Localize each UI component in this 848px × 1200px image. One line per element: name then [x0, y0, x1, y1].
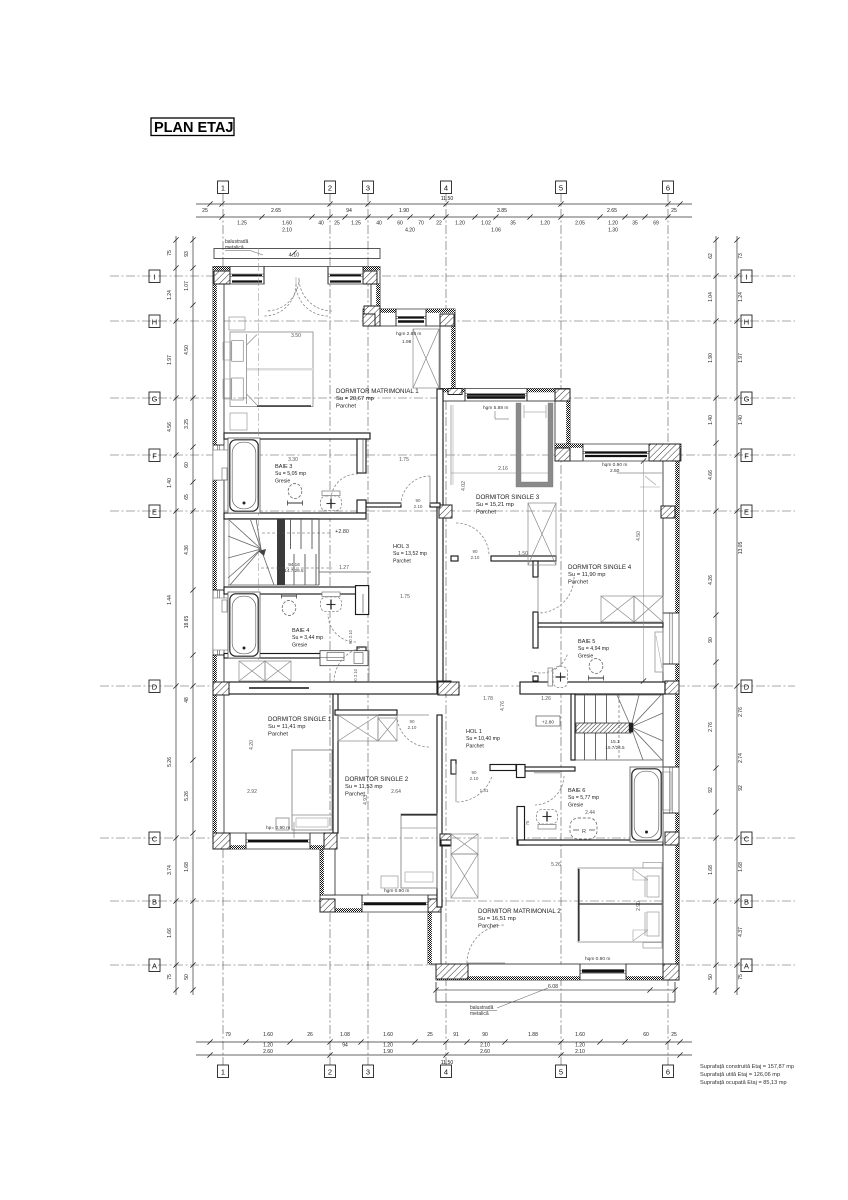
svg-text:R: R	[582, 829, 586, 835]
svg-text:Gresie: Gresie	[568, 802, 583, 808]
grid marker 2 bottom	[325, 1065, 336, 1078]
svg-text:5.26: 5.26	[184, 791, 190, 801]
svg-text:4: 4	[444, 1068, 448, 1077]
wall BAIE6 south	[518, 840, 663, 845]
svg-text:75: 75	[167, 974, 173, 980]
svg-text:2.60: 2.60	[480, 1049, 490, 1055]
dimension chain bottom inner	[196, 1041, 692, 1043]
door arc DM2 corridor	[456, 777, 492, 802]
window step2 DS3	[465, 388, 527, 402]
svg-text:14.7/26.5: 14.7/26.5	[284, 568, 304, 573]
svg-text:79: 79	[225, 1032, 231, 1038]
grid marker H left	[149, 315, 160, 328]
svg-text:93: 93	[184, 251, 190, 257]
svg-text:90: 90	[708, 637, 714, 643]
svg-text:Parchet: Parchet	[478, 923, 498, 929]
grid line row E	[110, 510, 795, 512]
svg-text:1.27: 1.27	[339, 565, 349, 571]
svg-text:11.50: 11.50	[441, 1060, 454, 1066]
svg-text:G: G	[744, 395, 750, 404]
pier step1 left	[363, 314, 375, 326]
pier step1 right / central top	[440, 314, 454, 326]
svg-text:50: 50	[184, 974, 190, 980]
svg-text:BAIE 5: BAIE 5	[578, 639, 595, 645]
grid line row B	[110, 900, 795, 902]
grid marker C right	[741, 832, 752, 845]
svg-text:1.40: 1.40	[167, 478, 173, 488]
svg-text:hqm 0.90 m: hqm 0.90 m	[602, 462, 627, 468]
svg-text:Gresie: Gresie	[275, 478, 290, 484]
svg-text:90: 90	[409, 719, 415, 724]
pier bottom-left wall right	[324, 833, 337, 849]
door arc DM2	[467, 925, 505, 963]
svg-text:G: G	[152, 395, 158, 404]
svg-text:75: 75	[167, 250, 173, 256]
svg-text:DORMITOR SINGLE 1: DORMITOR SINGLE 1	[268, 716, 332, 723]
stairs 2 cut band	[576, 723, 631, 733]
svg-text:BAIE 6: BAIE 6	[568, 788, 585, 794]
stairs 1 treads lower	[283, 554, 285, 585]
nightstand DM2 bottom	[643, 943, 662, 949]
svg-text:26: 26	[307, 1032, 313, 1038]
svg-text:Suprafață ocupată Etaj = 85,13: Suprafață ocupată Etaj = 85,13 mp	[700, 1080, 787, 1086]
svg-text:3.30: 3.30	[288, 457, 298, 463]
grid marker F right	[741, 449, 752, 462]
svg-text:60: 60	[397, 221, 403, 227]
wardrobe hall strip	[239, 661, 265, 681]
door arc BAIE 5	[531, 655, 567, 673]
wall DS4 west	[533, 561, 538, 577]
dimension chain left inner	[192, 236, 194, 995]
dimension chain right inner	[715, 236, 717, 995]
grid marker F left	[149, 449, 160, 462]
svg-text:4.36: 4.36	[184, 545, 190, 555]
grid marker G left	[149, 392, 160, 405]
svg-text:DORMITOR SINGLE 2: DORMITOR SINGLE 2	[345, 776, 409, 783]
svg-text:Su = 11,90 mp: Su = 11,90 mp	[568, 572, 605, 578]
svg-text:B: B	[152, 898, 157, 907]
svg-text:73: 73	[738, 253, 744, 259]
grid marker D right	[741, 680, 752, 693]
svg-text:22: 22	[436, 221, 442, 227]
axis line x258	[258, 248, 260, 660]
svg-text:50: 50	[708, 974, 714, 980]
svg-text:Parchet: Parchet	[568, 579, 588, 585]
svg-text:4.93: 4.93	[363, 795, 369, 805]
svg-text:2.44: 2.44	[585, 810, 595, 816]
grid marker E right	[741, 505, 752, 518]
svg-text:A: A	[744, 962, 749, 971]
svg-text:4.76: 4.76	[500, 701, 506, 711]
svg-text:48: 48	[184, 697, 190, 703]
svg-text:1.20: 1.20	[263, 1043, 273, 1049]
pier central F	[439, 505, 452, 518]
door arc DS1 entry	[334, 647, 369, 682]
svg-text:4.50: 4.50	[636, 531, 642, 541]
svg-text:I: I	[745, 273, 747, 282]
svg-text:1.60: 1.60	[282, 221, 292, 227]
grid line row D	[100, 685, 795, 687]
svg-text:1.88: 1.88	[528, 1032, 538, 1038]
pier central D	[438, 681, 451, 694]
wall bedroom1 right upper	[371, 284, 380, 310]
svg-text:Su = 5,05 mp: Su = 5,05 mp	[275, 471, 306, 477]
svg-text:2.10: 2.10	[408, 725, 417, 730]
svg-text:1.97: 1.97	[167, 355, 173, 365]
svg-text:3.85: 3.85	[497, 208, 507, 214]
svg-text:1.68: 1.68	[708, 865, 714, 875]
grid marker B left	[149, 895, 160, 908]
svg-text:90: 90	[482, 1032, 488, 1038]
door arc DS4	[538, 577, 574, 613]
svg-text:BAIE 3: BAIE 3	[275, 464, 292, 470]
svg-text:4.37: 4.37	[738, 927, 744, 937]
svg-text:1.25: 1.25	[237, 221, 247, 227]
niche DS4 top right	[617, 472, 663, 474]
pier left wall D	[213, 682, 229, 695]
svg-text:F: F	[744, 452, 749, 461]
washing machine BAIE 6	[570, 818, 597, 839]
stairs 2 walk line	[618, 695, 620, 760]
svg-text:2.05: 2.05	[575, 221, 585, 227]
grid marker 2 top	[325, 181, 336, 194]
wall BAIE4 south	[224, 654, 366, 659]
wall stairs2 west	[571, 694, 575, 760]
toilet BAIE 4	[321, 592, 342, 612]
wardrobe DS4	[601, 596, 634, 622]
stairs 1 treads upper	[279, 519, 281, 549]
grid marker E left	[149, 505, 160, 518]
svg-text:DORMITOR SINGLE 4: DORMITOR SINGLE 4	[568, 564, 632, 571]
svg-text:6: 6	[666, 1068, 670, 1077]
svg-text:1.20: 1.20	[608, 221, 618, 227]
pier step bottom h right	[428, 899, 441, 912]
radiator BAIE5	[655, 632, 663, 672]
svg-text:2.64: 2.64	[391, 789, 401, 795]
svg-text:1.25: 1.25	[351, 221, 361, 227]
nightstand bed1 bottom	[230, 413, 247, 430]
svg-text:3.25: 3.25	[184, 419, 190, 429]
svg-text:75: 75	[525, 820, 530, 825]
stairs 1 cut band	[277, 519, 285, 585]
svg-text:DORMITOR MATRIMONIAL 1: DORMITOR MATRIMONIAL 1	[336, 388, 419, 395]
svg-text:hgm 5.88 m: hgm 5.88 m	[483, 405, 508, 411]
wall D row left	[224, 682, 437, 694]
svg-text:2.10: 2.10	[470, 776, 479, 781]
bed DS1	[292, 750, 332, 830]
svg-text:1.90: 1.90	[383, 1049, 393, 1055]
svg-text:4.56: 4.56	[167, 422, 173, 432]
stairs 2 treads	[584, 695, 586, 760]
svg-text:Su = 16,51 mp: Su = 16,51 mp	[478, 916, 516, 922]
svg-text:1.20: 1.20	[383, 1043, 393, 1049]
grid marker D left	[149, 680, 160, 693]
svg-text:Su = 3,44 mp: Su = 3,44 mp	[292, 635, 323, 641]
sink BAIE 3	[288, 484, 303, 506]
svg-text:2.10: 2.10	[282, 228, 292, 234]
bed DM2	[578, 868, 662, 942]
pier C at DS2 east	[440, 834, 451, 846]
dimension chain right outer	[736, 236, 738, 995]
grid marker 6 bottom	[663, 1065, 674, 1078]
grid line column 4	[445, 193, 447, 1065]
svg-text:Su = 13,52 mp: Su = 13,52 mp	[393, 551, 427, 557]
wall BAIE3 east	[357, 439, 366, 473]
svg-text:65: 65	[184, 494, 190, 500]
wardrobe DM2	[451, 834, 478, 854]
svg-text:2.90: 2.90	[636, 901, 642, 911]
svg-text:90 2.10: 90 2.10	[353, 668, 358, 683]
svg-text:91: 91	[453, 1032, 459, 1038]
dim line 4.50 DS4	[643, 461, 645, 681]
grid line row C	[100, 837, 795, 839]
svg-text:metalică: metalică	[470, 1011, 489, 1017]
window bottom DM2	[580, 963, 626, 980]
title box PLAN ETAJ	[151, 118, 234, 136]
svg-text:1.90: 1.90	[708, 353, 714, 363]
svg-text:Su = 4,94 mp: Su = 4,94 mp	[578, 646, 609, 652]
dimension chain top inner	[196, 216, 692, 218]
svg-text:2.16: 2.16	[498, 466, 508, 472]
shaft box BAIE4	[320, 651, 368, 666]
svg-text:40: 40	[318, 221, 324, 227]
svg-text:1.40: 1.40	[708, 415, 714, 425]
svg-text:1.44: 1.44	[167, 595, 173, 605]
pier step bottom h left	[320, 899, 335, 912]
window step bottom DS2	[362, 894, 428, 912]
wall DS3 east upper	[555, 401, 570, 448]
svg-text:90: 90	[472, 549, 478, 554]
svg-text:2.65: 2.65	[607, 208, 617, 214]
svg-text:metalică: metalică	[225, 245, 244, 251]
svg-text:70: 70	[418, 221, 424, 227]
svg-text:2.92: 2.92	[247, 789, 257, 795]
svg-text:B: B	[744, 898, 749, 907]
svg-text:2.60: 2.60	[263, 1049, 273, 1055]
svg-text:25: 25	[427, 1032, 433, 1038]
svg-text:F: F	[152, 452, 157, 461]
door arc balcony french	[266, 278, 299, 311]
window right wall BAIE6	[662, 767, 679, 813]
svg-text:D: D	[152, 683, 158, 692]
svg-text:94 16: 94 16	[288, 562, 300, 567]
wall BAIE3 south / stairs north	[224, 513, 366, 519]
grid marker A right	[741, 959, 752, 972]
svg-text:3: 3	[366, 184, 370, 193]
window step1	[396, 308, 426, 326]
svg-text:35: 35	[632, 221, 638, 227]
stairs 2 winders	[617, 695, 631, 727]
bathtub BAIE 6	[630, 767, 663, 842]
svg-text:Parchet: Parchet	[466, 743, 484, 749]
svg-text:1.24: 1.24	[738, 292, 744, 302]
grid line row F	[110, 454, 795, 456]
svg-text:4: 4	[444, 184, 448, 193]
wall step bottom horizontal	[320, 895, 441, 912]
grid marker 3 bottom	[363, 1065, 374, 1078]
svg-text:Su = 11,41 mp: Su = 11,41 mp	[268, 724, 305, 730]
bed DS2	[401, 814, 437, 888]
svg-text:D: D	[744, 683, 750, 692]
svg-text:1.60: 1.60	[383, 1032, 393, 1038]
grid line row H	[110, 320, 795, 322]
svg-text:C: C	[152, 835, 158, 844]
wall BAIE4 east	[356, 586, 369, 615]
wall BAIE4 north	[224, 587, 366, 594]
svg-text:69: 69	[653, 221, 659, 227]
svg-text:25: 25	[671, 1032, 677, 1038]
svg-text:3.50: 3.50	[291, 333, 301, 339]
svg-text:Parchet: Parchet	[393, 558, 411, 564]
svg-text:BAIE 4: BAIE 4	[292, 628, 309, 634]
svg-text:2.10: 2.10	[575, 1049, 585, 1055]
svg-text:1.08: 1.08	[340, 1032, 350, 1038]
svg-text:1.20: 1.20	[540, 221, 550, 227]
french door opening top	[265, 266, 328, 285]
svg-text:1.20: 1.20	[455, 221, 465, 227]
window step3 DS4	[583, 443, 649, 461]
svg-text:3: 3	[366, 1068, 370, 1077]
stairs 1 landing edge	[319, 571, 371, 573]
svg-text:1.68: 1.68	[738, 862, 744, 872]
svg-text:2.10: 2.10	[471, 555, 480, 560]
svg-text:5: 5	[559, 184, 563, 193]
wall corridor DM2 west jamb	[451, 760, 456, 774]
svg-text:25: 25	[334, 221, 340, 227]
svg-text:Su = 5,77 mp: Su = 5,77 mp	[568, 795, 599, 801]
grid marker 6 top	[663, 181, 674, 194]
stairs 1 walk line	[262, 532, 332, 534]
grid marker 3 top	[363, 181, 374, 194]
svg-text:75: 75	[738, 974, 744, 980]
dimension chain left outer	[175, 236, 177, 995]
window right wall BAIE5	[662, 613, 679, 664]
svg-text:25: 25	[202, 208, 208, 214]
grid line column 5	[560, 193, 562, 1065]
svg-text:2.65: 2.65	[271, 208, 281, 214]
svg-text:1.60: 1.60	[575, 1032, 585, 1038]
wall step3 horizontal window wall	[555, 444, 681, 461]
svg-text:5.26: 5.26	[167, 757, 173, 767]
grid marker 4 top	[441, 181, 452, 194]
wardrobe DS3	[528, 503, 556, 565]
svg-text:Su = 20,67 mp: Su = 20,67 mp	[336, 396, 374, 402]
wall exterior bottom DM2	[436, 964, 679, 980]
door arc BAIE 6	[535, 776, 564, 805]
toilet BAIE 6	[537, 810, 558, 830]
svg-text:Suprafață utilă Etaj = 126,06: Suprafață utilă Etaj = 126,06 mp	[700, 1072, 780, 1078]
pier corner step3	[649, 444, 680, 461]
svg-text:Su = 15,21 mp: Su = 15,21 mp	[476, 502, 514, 508]
wall step vertical x320	[320, 849, 335, 895]
wall step2 horizontal	[440, 389, 570, 402]
wall exterior right	[663, 461, 679, 965]
svg-text:2.10: 2.10	[480, 1043, 490, 1049]
svg-text:2.76: 2.76	[708, 722, 714, 732]
nightstand DS2	[381, 876, 398, 888]
door arc DS2 entry	[397, 715, 429, 747]
svg-text:1.06: 1.06	[491, 228, 501, 234]
svg-text:1.02: 1.02	[481, 221, 491, 227]
grid line column 2	[329, 193, 331, 1065]
svg-text:Su = 11,53 mp: Su = 11,53 mp	[345, 784, 382, 790]
nightstand DM2 top	[643, 863, 662, 869]
grid marker I left	[149, 270, 160, 283]
svg-text:4.26: 4.26	[708, 575, 714, 585]
svg-text:Parchet: Parchet	[336, 403, 356, 409]
window left wall BAIE3	[212, 445, 224, 480]
svg-text:1.24: 1.24	[167, 290, 173, 300]
svg-text:15.1: 15.1	[611, 739, 620, 744]
grid marker A left	[149, 959, 160, 972]
svg-text:62: 62	[708, 253, 714, 259]
svg-text:Parchet: Parchet	[268, 731, 288, 737]
pier DS3 east bottom	[555, 448, 570, 461]
wall step bottom-left vertical	[428, 912, 441, 964]
svg-text:3.74: 3.74	[167, 865, 173, 875]
pier bottom right corner	[663, 964, 679, 980]
grid line column 6	[667, 193, 669, 1065]
wall interior central	[437, 389, 443, 688]
svg-text:HOL 3: HOL 3	[393, 544, 409, 550]
svg-text:1.98: 1.98	[402, 339, 412, 345]
svg-text:1.50: 1.50	[518, 551, 528, 557]
grid marker C left	[149, 832, 160, 845]
balcony bottom rail	[436, 1001, 675, 1003]
pier D at DS1 east	[438, 682, 459, 695]
grid line column 3	[367, 193, 369, 1065]
sink BAIE 5	[589, 659, 604, 681]
door arc bedroom 1	[401, 476, 430, 505]
svg-text:1.97: 1.97	[738, 353, 744, 363]
svg-text:4.02: 4.02	[461, 481, 467, 491]
svg-text:90: 90	[415, 498, 421, 503]
grid line row I	[110, 275, 795, 277]
svg-text:1.30: 1.30	[608, 228, 618, 234]
svg-text:94: 94	[342, 1043, 348, 1049]
pier D left end	[213, 682, 229, 695]
svg-text:90 2.10: 90 2.10	[348, 629, 353, 644]
svg-text:Parchet: Parchet	[476, 509, 496, 515]
svg-text:92: 92	[708, 787, 714, 793]
wall exterior bottom-left	[213, 833, 335, 849]
svg-text:1.75: 1.75	[399, 457, 409, 463]
svg-text:PLAN ETAJ: PLAN ETAJ	[154, 120, 234, 136]
svg-text:HOL 1: HOL 1	[466, 729, 482, 735]
grid marker 1 bottom	[218, 1065, 229, 1078]
svg-text:25: 25	[671, 208, 677, 214]
svg-text:92: 92	[738, 785, 744, 791]
svg-text:E: E	[152, 508, 157, 517]
svg-text:H: H	[744, 318, 749, 327]
pier right wall C	[665, 832, 679, 845]
wall exterior left	[213, 267, 224, 850]
svg-text:1: 1	[221, 184, 225, 193]
wall bedroom1 south	[224, 433, 370, 439]
bathtub BAIE 3	[228, 438, 260, 513]
svg-text:4.50: 4.50	[184, 345, 190, 355]
svg-text:15.7/26.5: 15.7/26.5	[605, 745, 625, 750]
closet DS3 gray	[516, 403, 553, 487]
svg-text:11.50: 11.50	[441, 196, 454, 202]
grid marker I right	[741, 270, 752, 283]
grid marker H right	[741, 315, 752, 328]
wall exterior top	[213, 267, 380, 285]
toilet BAIE 5	[548, 667, 568, 688]
wall DS2 east	[437, 715, 442, 907]
grid marker G right	[741, 392, 752, 405]
wall BAIE6 west	[517, 765, 526, 778]
